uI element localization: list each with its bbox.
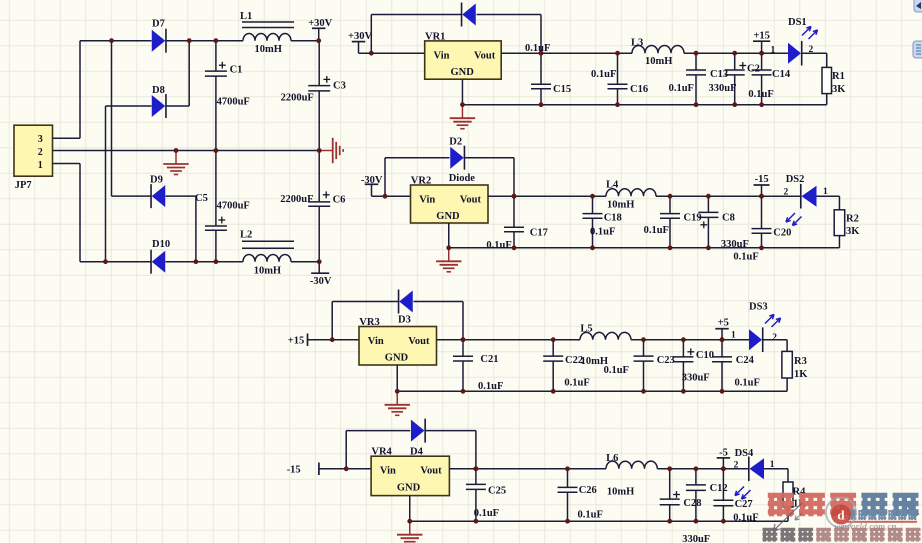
svg-text:L3: L3 <box>631 38 643 49</box>
svg-text:10mH: 10mH <box>607 487 634 498</box>
svg-text:L1: L1 <box>240 11 252 22</box>
svg-text:D2: D2 <box>449 137 462 148</box>
svg-text:D3: D3 <box>398 315 411 326</box>
svg-text:3K: 3K <box>832 84 846 95</box>
svg-text:4700uF: 4700uF <box>217 97 250 108</box>
svg-text:C3: C3 <box>333 81 346 92</box>
svg-text:2: 2 <box>772 333 777 343</box>
svg-text:Diode: Diode <box>449 173 476 184</box>
svg-text:C22: C22 <box>565 355 583 366</box>
svg-text:3: 3 <box>38 134 43 145</box>
svg-text:Vout: Vout <box>420 466 442 477</box>
svg-text:0.1uF: 0.1uF <box>644 225 669 236</box>
svg-text:VR3: VR3 <box>359 317 379 328</box>
svg-text:C6: C6 <box>333 195 346 206</box>
svg-text:C16: C16 <box>630 84 648 95</box>
svg-text:+30V: +30V <box>348 31 372 42</box>
svg-text:C28: C28 <box>683 498 701 509</box>
svg-text:330uF: 330uF <box>682 534 710 543</box>
svg-text:0.1uF: 0.1uF <box>486 240 511 251</box>
svg-text:R3: R3 <box>794 356 807 367</box>
svg-text:L5: L5 <box>580 323 592 334</box>
svg-text:2200uF: 2200uF <box>281 93 314 104</box>
svg-text:D4: D4 <box>410 446 424 457</box>
svg-text:0.1uF: 0.1uF <box>733 513 758 524</box>
svg-text:2200uF: 2200uF <box>280 194 313 205</box>
svg-text:10mH: 10mH <box>645 56 672 67</box>
svg-text:+15: +15 <box>753 31 769 42</box>
svg-text:C18: C18 <box>604 213 622 224</box>
svg-text:C8: C8 <box>722 213 735 224</box>
svg-text:C15: C15 <box>553 84 571 95</box>
svg-text:DS3: DS3 <box>749 302 768 313</box>
svg-text:C13: C13 <box>710 69 728 80</box>
svg-text:10mH: 10mH <box>255 44 282 55</box>
svg-text:Vin: Vin <box>380 466 396 477</box>
svg-text:DS4: DS4 <box>735 448 754 459</box>
svg-text:C21: C21 <box>480 354 498 365</box>
svg-text:+15: +15 <box>288 336 304 347</box>
svg-text:GND: GND <box>436 211 460 222</box>
svg-text:C25: C25 <box>488 486 506 497</box>
svg-text:2: 2 <box>734 461 739 471</box>
svg-text:-15: -15 <box>287 465 301 476</box>
svg-text:330uF: 330uF <box>682 373 710 384</box>
svg-text:3K: 3K <box>846 226 860 237</box>
svg-text:0.1uF: 0.1uF <box>478 381 503 392</box>
svg-text:0.1uF: 0.1uF <box>669 83 694 94</box>
svg-text:1K: 1K <box>794 369 808 380</box>
svg-text:0.1uF: 0.1uF <box>578 510 603 521</box>
svg-text:C10: C10 <box>696 350 714 361</box>
svg-text:0.1uF: 0.1uF <box>604 365 629 376</box>
svg-text:-15: -15 <box>755 174 769 185</box>
svg-text:1: 1 <box>823 187 828 197</box>
svg-text:GND: GND <box>385 353 409 364</box>
svg-text:R1: R1 <box>832 71 845 82</box>
svg-text:GND: GND <box>397 482 421 493</box>
svg-text:C23: C23 <box>657 355 675 366</box>
svg-text:2: 2 <box>784 188 789 198</box>
svg-text:2: 2 <box>38 147 43 158</box>
svg-text:D7: D7 <box>152 19 165 30</box>
svg-text:0.1uF: 0.1uF <box>748 89 773 100</box>
svg-text:VR1: VR1 <box>425 31 445 42</box>
svg-text:+5: +5 <box>718 318 729 329</box>
svg-text:VR4: VR4 <box>371 447 392 458</box>
svg-text:0.1uF: 0.1uF <box>564 378 589 389</box>
svg-text:Vin: Vin <box>434 50 450 61</box>
svg-text:C24: C24 <box>736 355 755 366</box>
svg-text:L6: L6 <box>606 453 618 464</box>
svg-text:JP7: JP7 <box>15 180 32 191</box>
svg-text:1: 1 <box>38 160 43 171</box>
svg-text:330uF: 330uF <box>709 83 737 94</box>
svg-text:C2: C2 <box>747 64 760 75</box>
svg-text:C14: C14 <box>772 69 791 80</box>
svg-text:C27: C27 <box>735 499 753 510</box>
svg-text:C20: C20 <box>773 228 791 239</box>
svg-text:GND: GND <box>451 67 475 78</box>
svg-text:10mH: 10mH <box>607 200 634 211</box>
svg-text:Vout: Vout <box>408 336 430 347</box>
svg-text:1: 1 <box>771 46 776 56</box>
svg-text:C26: C26 <box>579 485 597 496</box>
svg-text:D9: D9 <box>150 175 163 186</box>
svg-text:C19: C19 <box>684 213 702 224</box>
svg-text:Vout: Vout <box>460 194 482 205</box>
svg-text:0.1uF: 0.1uF <box>733 252 758 263</box>
svg-text:C12: C12 <box>710 483 728 494</box>
svg-text:4700uF: 4700uF <box>217 201 250 212</box>
svg-text:0.1uF: 0.1uF <box>735 378 760 389</box>
svg-text:C5: C5 <box>195 193 208 204</box>
svg-text:0.1uF: 0.1uF <box>474 508 499 519</box>
svg-text:C1: C1 <box>230 65 243 76</box>
svg-text:d: d <box>837 508 845 523</box>
svg-text:10mH: 10mH <box>254 266 281 277</box>
svg-text:0.1uF: 0.1uF <box>590 227 615 238</box>
svg-text:330uF: 330uF <box>721 239 749 250</box>
svg-text:-30V: -30V <box>310 276 332 287</box>
svg-text:-5: -5 <box>719 447 728 458</box>
svg-text:L2: L2 <box>240 230 252 241</box>
svg-text:0.1uF: 0.1uF <box>591 69 616 80</box>
svg-text:Vout: Vout <box>474 50 496 61</box>
svg-text:L4: L4 <box>606 180 619 191</box>
svg-text:DS1: DS1 <box>788 17 807 28</box>
svg-text:1: 1 <box>731 331 736 341</box>
svg-text:0.1uF: 0.1uF <box>525 43 550 54</box>
svg-text:R2: R2 <box>846 214 859 225</box>
svg-text:VR2: VR2 <box>411 176 431 187</box>
svg-text:Vin: Vin <box>419 194 435 205</box>
svg-text:D10: D10 <box>152 239 170 250</box>
svg-text:C17: C17 <box>530 228 548 239</box>
svg-text:DS2: DS2 <box>786 174 805 185</box>
svg-text:Vin: Vin <box>368 336 384 347</box>
svg-text:D8: D8 <box>152 85 165 96</box>
